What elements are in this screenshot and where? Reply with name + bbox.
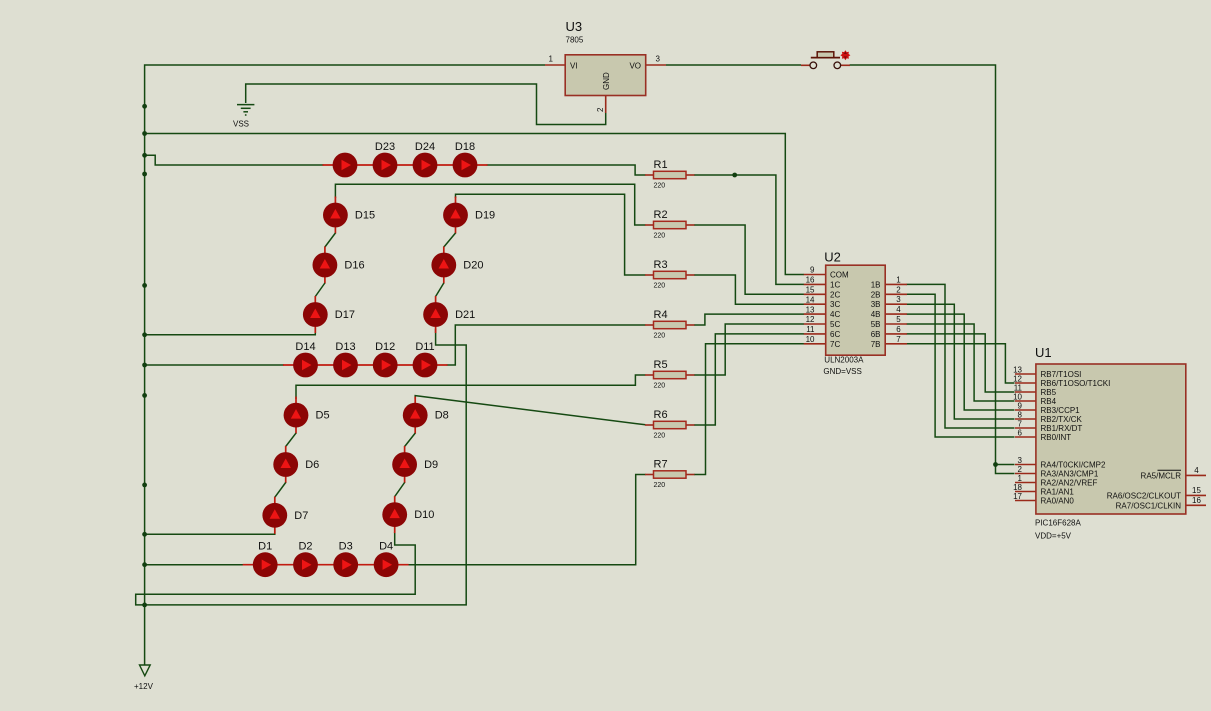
svg-text:6: 6 — [1018, 429, 1023, 438]
wire R5 to U2 5C pin 12 — [694, 324, 804, 375]
U1 pin 13 stub — [1015, 382, 1036, 384]
svg-text:D9: D9 — [424, 459, 438, 471]
resistor R4 — [645, 309, 695, 340]
svg-text:D1: D1 — [258, 541, 272, 553]
pin wires LED column — [443, 247, 445, 266]
U2 pin 10 stub — [885, 283, 907, 285]
junction dot rail/D17 wire — [142, 332, 147, 337]
svg-text:RB1/RX/DT: RB1/RX/DT — [1041, 424, 1083, 433]
wire diagonal LED link — [286, 433, 296, 446]
LED D11 — [413, 341, 438, 378]
svg-text:+12V: +12V — [134, 682, 154, 691]
svg-text:4: 4 — [1194, 466, 1199, 475]
svg-text:7C: 7C — [830, 340, 840, 349]
power symbol +12V (open arrow at rail bottom) — [140, 665, 151, 676]
svg-text:RA6/OSC2/CLKOUT: RA6/OSC2/CLKOUT — [1107, 492, 1181, 501]
wire diagonal LED link — [275, 483, 286, 498]
U1 pin 3 stub — [1015, 473, 1036, 475]
driver IC U2 (ULN2003A) — [804, 250, 907, 377]
svg-text:U1: U1 — [1035, 345, 1052, 360]
svg-text:6: 6 — [896, 325, 901, 334]
wire segment-A LED row pins — [323, 164, 488, 166]
wire D18 to R1 — [487, 165, 646, 175]
svg-text:3B: 3B — [871, 300, 881, 309]
U2 pin 14 stub — [804, 313, 826, 315]
pin wires LED column — [334, 197, 336, 216]
U1 pin 8 stub — [1015, 427, 1036, 429]
wire U2 2B to U1 RB0 pin 6 — [907, 294, 1015, 437]
svg-text:VSS: VSS — [233, 120, 249, 129]
svg-text:7B: 7B — [871, 340, 881, 349]
U2 right pin stub — [885, 343, 907, 345]
svg-text:8: 8 — [1018, 411, 1023, 420]
wire D5 top to R5 — [296, 375, 646, 399]
wire D19 top to R3 — [456, 194, 646, 275]
U1 pin 18 stub — [1015, 500, 1036, 502]
svg-text:VI: VI — [570, 61, 578, 70]
dangling junction dots on +12V rail — [142, 104, 147, 109]
U2 right pin stub — [885, 313, 907, 315]
U1 pin 10 stub — [1015, 409, 1036, 411]
LED D5 — [284, 403, 330, 428]
svg-text:13: 13 — [806, 305, 815, 314]
wire rail to D7 bottom (segment E anode) — [145, 529, 275, 535]
svg-text:R6: R6 — [654, 409, 668, 421]
LED D16 — [313, 253, 365, 278]
svg-text:RB6/T1OSO/T1CKI: RB6/T1OSO/T1CKI — [1041, 379, 1111, 388]
resistor R7 — [645, 459, 695, 490]
svg-text:17: 17 — [1013, 492, 1022, 501]
svg-text:RA0/AN0: RA0/AN0 — [1041, 497, 1075, 506]
U2 right pin stub — [885, 333, 907, 335]
svg-text:6B: 6B — [871, 330, 881, 339]
svg-text:7: 7 — [1018, 420, 1023, 429]
svg-text:D7: D7 — [294, 510, 308, 522]
svg-text:GND=VSS: GND=VSS — [823, 367, 861, 376]
U2 right pin stub — [885, 293, 907, 295]
LED D21 — [423, 302, 475, 327]
svg-text:2: 2 — [1018, 465, 1023, 474]
svg-text:D20: D20 — [463, 260, 483, 272]
svg-text:7: 7 — [896, 335, 901, 344]
svg-text:5C: 5C — [830, 320, 840, 329]
U1 pin 15 stub — [1186, 504, 1206, 506]
svg-text:R2: R2 — [654, 209, 668, 221]
svg-text:5: 5 — [896, 315, 901, 324]
svg-text:RB3/CCP1: RB3/CCP1 — [1041, 406, 1081, 415]
U1 pin 17 stub — [1186, 474, 1206, 476]
svg-text:D23: D23 — [375, 141, 395, 153]
wire segment-D LED row pins — [243, 564, 409, 566]
wire diagonal LED link — [405, 433, 416, 446]
wire D10 and D21 anodes return to rail (bottom staple run) — [136, 329, 467, 605]
wire R4 to U2 4C pin 13 — [694, 314, 804, 325]
svg-text:220: 220 — [654, 333, 666, 340]
U1 pin 11 stub — [1015, 400, 1036, 402]
svg-text:D4: D4 — [379, 541, 393, 553]
svg-text:220: 220 — [654, 383, 666, 390]
U1 pin 12 stub — [1015, 391, 1036, 393]
junction dot rail/D7 wire — [142, 532, 147, 537]
svg-text:ULN2003A: ULN2003A — [824, 356, 864, 365]
U1 pin 16 stub — [1036, 364, 1186, 514]
LED D9 — [392, 452, 438, 477]
LED D12 — [373, 341, 398, 378]
resistor R5 — [645, 359, 695, 390]
resistor R1 — [645, 159, 695, 190]
svg-text:D5: D5 — [316, 410, 330, 422]
U2 pin 9 stub — [804, 283, 826, 285]
svg-text:D24: D24 — [415, 141, 435, 153]
pin wires LED column — [394, 496, 396, 514]
LED D20 — [431, 253, 483, 278]
svg-text:5B: 5B — [871, 320, 881, 329]
wire rail to U2 COM pin 9 — [145, 134, 804, 275]
junction dot rail/segment D row — [142, 562, 147, 567]
wire R2 to U2 2C pin 15 — [694, 225, 804, 294]
LED D23 — [373, 141, 398, 178]
wire branch to U1 RA4 pin 3 — [996, 464, 1015, 466]
svg-text:15: 15 — [806, 286, 815, 295]
svg-text:14: 14 — [806, 295, 815, 304]
resistor R3 — [645, 259, 695, 290]
junction dot rail/top LED row — [142, 153, 147, 158]
LED D24 — [413, 141, 438, 178]
svg-text:1C: 1C — [830, 280, 840, 289]
U2 right pin stub — [826, 265, 886, 355]
svg-text:RA2/AN2/VREF: RA2/AN2/VREF — [1041, 479, 1098, 488]
svg-text:D6: D6 — [305, 459, 319, 471]
svg-text:11: 11 — [806, 325, 815, 334]
LED D8 — [403, 403, 449, 428]
LED D6 — [273, 452, 319, 477]
svg-text:2C: 2C — [830, 290, 840, 299]
svg-text:D8: D8 — [435, 410, 449, 422]
pin wires LED column — [285, 446, 287, 465]
junction dot rail/staple return wire — [142, 603, 147, 608]
LED D1 — [253, 541, 278, 578]
wire D8 top diagonal to R6 — [415, 396, 645, 425]
U1 pin 2 stub — [1015, 482, 1036, 484]
svg-text:10: 10 — [806, 335, 815, 344]
LED D10 — [382, 502, 434, 527]
svg-text:D21: D21 — [455, 309, 475, 321]
svg-text:16: 16 — [806, 276, 815, 285]
U2 pin 13 stub — [804, 323, 826, 325]
svg-text:2: 2 — [596, 107, 605, 112]
wire R7 to U2 7C pin 10 — [694, 344, 804, 475]
svg-text:VO: VO — [629, 61, 641, 70]
svg-text:R1: R1 — [654, 159, 668, 171]
svg-text:3: 3 — [1018, 456, 1023, 465]
svg-text:220: 220 — [654, 283, 666, 290]
wire D11 right to R4 — [447, 325, 646, 365]
resistor R6 — [645, 409, 695, 440]
svg-text:D11: D11 — [415, 341, 434, 353]
pin wires LED column — [435, 296, 437, 315]
svg-text:RB0/INT: RB0/INT — [1041, 433, 1072, 442]
LED D22 — [333, 153, 358, 178]
svg-text:COM: COM — [830, 271, 849, 280]
svg-text:11: 11 — [1014, 384, 1023, 393]
svg-text:4B: 4B — [871, 310, 881, 319]
LED D19 — [443, 203, 495, 228]
svg-text:6C: 6C — [830, 330, 840, 339]
svg-text:1B: 1B — [871, 280, 881, 289]
pin 2 GND stub — [565, 55, 646, 96]
pin 3 VO stub — [605, 96, 607, 114]
LED D13 — [333, 341, 358, 378]
pin name RA5/MCLR — [1158, 469, 1182, 471]
resistor R2 — [645, 209, 695, 240]
U1 pin 9 stub — [1015, 418, 1036, 420]
wire diagonal LED link — [436, 283, 444, 297]
U2 right pin stub — [885, 303, 907, 305]
push button switch (interactive) — [801, 52, 850, 69]
svg-text:D15: D15 — [355, 210, 375, 222]
svg-text:D14: D14 — [295, 341, 315, 353]
voltage regulator U3 (7805) — [545, 19, 666, 113]
svg-text:9: 9 — [810, 266, 815, 275]
wire rail to top LED row (segment A anodes) — [145, 155, 324, 165]
svg-text:4: 4 — [896, 305, 901, 314]
pin wires LED column — [414, 397, 416, 416]
svg-text:U2: U2 — [824, 250, 841, 265]
svg-text:1: 1 — [1018, 474, 1023, 483]
svg-text:4C: 4C — [830, 310, 840, 319]
pin 1 VI stub — [646, 64, 666, 66]
svg-text:2B: 2B — [871, 290, 881, 299]
wire 7805 output to button to U1 (VO net, +5V) — [666, 64, 801, 66]
LED D17 — [303, 302, 355, 327]
svg-text:D2: D2 — [298, 541, 312, 553]
svg-text:RA3/AN3/CMP1: RA3/AN3/CMP1 — [1041, 470, 1099, 479]
U1 pin 7 stub — [1015, 436, 1036, 438]
svg-text:3: 3 — [896, 295, 901, 304]
svg-text:220: 220 — [654, 183, 666, 190]
U1 pin 4 stub — [1186, 494, 1206, 496]
wire U2 1B to U1 RB1 pin 7 — [907, 284, 1015, 428]
wire diagonal LED link — [444, 233, 456, 247]
svg-text:15: 15 — [1192, 486, 1201, 495]
wire rail to D14 (segment G row) — [145, 364, 284, 366]
wire rail to D17 bottom (segment F anode) — [145, 328, 316, 335]
LED D14 — [293, 341, 318, 378]
wire R3 to U2 3C pin 14 — [694, 275, 804, 304]
svg-text:220: 220 — [654, 233, 666, 240]
svg-text:D16: D16 — [344, 260, 364, 272]
svg-text:RA7/OSC1/CLKIN: RA7/OSC1/CLKIN — [1116, 502, 1182, 511]
svg-text:RB5: RB5 — [1041, 388, 1057, 397]
pin wires LED column — [274, 497, 276, 516]
LED D3 — [333, 541, 358, 578]
svg-text:D17: D17 — [335, 309, 355, 321]
pin wires LED column — [404, 446, 406, 465]
svg-text:10: 10 — [1013, 393, 1022, 402]
wire diagonal LED link — [325, 233, 336, 247]
wire diagonal LED link — [395, 483, 405, 497]
wire +12V rail (left vertical supply rail) — [145, 65, 545, 665]
wire U2 3B to U1 RB2 pin 8 — [907, 304, 1015, 419]
U2 pin 15 stub — [804, 303, 826, 305]
svg-text:16: 16 — [1192, 496, 1201, 505]
svg-text:RA4/T0CKI/CMP2: RA4/T0CKI/CMP2 — [1041, 461, 1106, 470]
pin wires LED column — [455, 197, 457, 216]
svg-text:D18: D18 — [455, 141, 475, 153]
svg-text:VDD=+5V: VDD=+5V — [1035, 532, 1072, 541]
svg-text:220: 220 — [654, 433, 666, 440]
svg-text:18: 18 — [1013, 483, 1022, 492]
svg-text:D19: D19 — [475, 210, 495, 222]
svg-text:PIC16F628A: PIC16F628A — [1035, 519, 1081, 528]
svg-text:R3: R3 — [654, 259, 668, 271]
pin wires LED column — [314, 296, 316, 315]
svg-text:RA1/AN1: RA1/AN1 — [1041, 488, 1075, 497]
svg-text:13: 13 — [1013, 366, 1022, 375]
svg-text:R7: R7 — [654, 459, 668, 471]
svg-text:12: 12 — [1013, 375, 1022, 384]
svg-text:RB7/T1OSI: RB7/T1OSI — [1041, 370, 1082, 379]
wire U2 7B to U1 RB6 pin 12 — [907, 344, 1015, 383]
wire button to U1 RA3 pin 2 (vertical at x=995) — [850, 65, 1015, 474]
svg-text:RA5/MCLR: RA5/MCLR — [1141, 472, 1182, 481]
pin wires LED column — [295, 397, 297, 416]
LED D7 — [262, 503, 308, 528]
wire diagonal LED link — [315, 283, 325, 297]
svg-text:9: 9 — [1018, 402, 1023, 411]
LED D4 — [374, 541, 399, 578]
wire D15 top to R2 — [335, 184, 645, 225]
svg-text:3: 3 — [656, 55, 661, 64]
LED D15 — [323, 203, 375, 228]
interactive marker (red star) — [840, 50, 850, 60]
svg-text:R5: R5 — [654, 359, 668, 371]
svg-text:GND: GND — [602, 72, 611, 90]
wire segment-G LED row pins — [283, 364, 448, 366]
ground symbol VSS — [237, 105, 254, 115]
svg-text:D13: D13 — [335, 341, 355, 353]
wire R6 to U2 6C pin 11 — [694, 334, 804, 425]
svg-text:RB2/TX/CK: RB2/TX/CK — [1041, 415, 1083, 424]
svg-text:D3: D3 — [339, 541, 353, 553]
svg-text:R4: R4 — [654, 309, 668, 321]
svg-text:U3: U3 — [566, 19, 583, 34]
svg-text:7805: 7805 — [566, 36, 584, 45]
LED D18 — [453, 141, 478, 178]
junction dot at U1 pin 3 branch — [993, 462, 998, 467]
U2 right pin stub — [885, 323, 907, 325]
wire rail to D1 (segment D row) — [145, 564, 244, 566]
LED D2 — [293, 541, 318, 578]
svg-text:3C: 3C — [830, 300, 840, 309]
svg-text:D10: D10 — [414, 509, 434, 521]
wire U2 4B to U1 RB3 pin 9 — [907, 314, 1015, 410]
svg-text:12: 12 — [806, 315, 815, 324]
U2 pin 16 stub — [804, 293, 826, 295]
U1 pin 1 stub — [1015, 491, 1036, 493]
U1 pin 6 stub — [1015, 464, 1036, 466]
svg-text:1: 1 — [896, 275, 901, 284]
svg-text:220: 220 — [654, 482, 666, 489]
junction dot rail/COM wire — [142, 131, 147, 136]
wire U2 5B to U1 RB4 pin 10 — [907, 324, 1015, 401]
pin wires LED column — [324, 247, 326, 266]
wire R1 to U2 1C pin 16 — [694, 175, 804, 284]
svg-text:D12: D12 — [375, 341, 395, 353]
microcontroller U1 (PIC16F628A) — [1013, 345, 1206, 541]
U2 pin 11 stub — [804, 343, 826, 345]
svg-text:2: 2 — [896, 285, 901, 294]
U2 pin 12 stub — [804, 333, 826, 335]
svg-text:RB4: RB4 — [1041, 397, 1057, 406]
wire D4 right to R7 — [408, 475, 646, 565]
svg-text:1: 1 — [549, 55, 554, 64]
junction dot rail/segment G row — [142, 363, 147, 368]
ground VSS net wire (7805 GND pin to ground symbol) — [246, 84, 606, 125]
wire U2 6B to U1 RB5 pin 11 — [907, 334, 1015, 392]
junction dot on R1 output wire — [732, 173, 737, 178]
